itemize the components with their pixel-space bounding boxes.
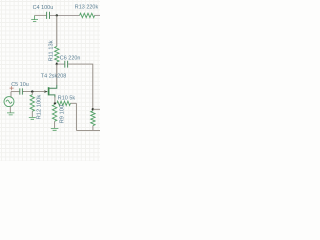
svg-text:R10 5k: R10 5k xyxy=(58,96,76,102)
resistor R10 xyxy=(57,101,71,105)
wire: R12 to ground xyxy=(31,111,33,117)
svg-text:T4 2sk208: T4 2sk208 xyxy=(41,73,67,79)
wire: C6 right then down right side xyxy=(68,64,93,109)
wire: gate xyxy=(23,91,46,93)
wire: R11 to mid node xyxy=(56,62,58,64)
plus polarity mark xyxy=(10,86,14,90)
resistor R12 xyxy=(30,95,34,112)
wire: right resistor to bottom rail xyxy=(92,126,94,131)
svg-text:R12 100k: R12 100k xyxy=(37,95,43,120)
capacitor C4 xyxy=(47,12,50,19)
svg-text:R9 100: R9 100 xyxy=(59,105,65,124)
wire top: ground to C4 xyxy=(35,14,47,16)
wire: R9 to ground xyxy=(54,121,56,128)
wire: C4 to R13 xyxy=(50,14,80,16)
AC source V1 xyxy=(4,97,14,107)
background grid xyxy=(0,0,102,161)
capacitor C5 xyxy=(20,88,23,94)
wire: source top to C5 xyxy=(11,91,20,93)
svg-text:C6 220n: C6 220n xyxy=(60,56,81,62)
svg-text:C5 10u: C5 10u xyxy=(11,82,29,88)
wire: R10 to corner xyxy=(70,102,76,104)
resistor R11 xyxy=(55,46,59,62)
wire: AC source stub up xyxy=(10,92,12,98)
svg-text:R13 220k: R13 220k xyxy=(75,5,99,11)
node junction dot right tap xyxy=(92,108,94,110)
wire: vertical top node down to R11 xyxy=(56,15,58,46)
ground G2 under source xyxy=(7,113,14,115)
ground G4 under R9 xyxy=(51,128,59,130)
wire: C5 to gate wire xyxy=(23,91,24,93)
capacitor C6 xyxy=(65,61,68,68)
svg-text:C4 100u: C4 100u xyxy=(33,5,54,11)
resistor R9 xyxy=(52,105,56,122)
node junction dot source xyxy=(54,102,56,104)
resistor R13 xyxy=(80,13,95,17)
ground G3 under R12 xyxy=(29,117,36,119)
node junction dot mid xyxy=(56,63,58,65)
wire: AC source to ground xyxy=(9,106,11,113)
wire: gate node to R12 xyxy=(31,92,33,95)
wire: R13 to right edge xyxy=(95,14,100,16)
wire: right tap to edge xyxy=(93,108,100,110)
transistor T4 JFET 2sk208 xyxy=(44,64,57,103)
svg-text:R11 13k: R11 13k xyxy=(48,40,54,61)
ground G1 top-left xyxy=(31,15,38,21)
wire: mid node to C6 xyxy=(57,63,65,65)
wire: bottom rail xyxy=(76,129,100,131)
wire: R10 corner down to bottom rail xyxy=(75,103,77,130)
node junction dot gate/R12 xyxy=(31,90,33,92)
node junction dot top xyxy=(56,14,58,16)
resistor R8 right xyxy=(91,111,95,126)
